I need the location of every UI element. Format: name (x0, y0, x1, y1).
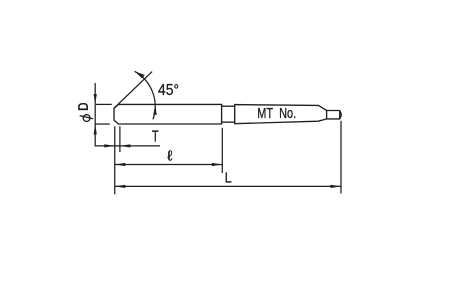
arrowhead L left (left-pointing) (115, 185, 126, 188)
arrowhead arc at body edge (153, 104, 156, 115)
svg-text:T: T (152, 129, 159, 146)
phiD top extension line (96, 103, 112, 105)
svg-text:45°: 45° (158, 82, 179, 99)
arrowhead phiD bottom (up) (94, 124, 97, 134)
svg-text:ℓ: ℓ (167, 148, 173, 164)
phiD dimension line with corner to T dimension line (95, 83, 160, 146)
neck bottom edge (222, 121, 235, 123)
tang shoulder line (326, 111, 328, 119)
arrowhead T left (right-pointing) (104, 144, 115, 147)
l dimension line (115, 164, 223, 166)
L right extension line (340, 121, 342, 194)
L dimension line (115, 185, 341, 187)
diameter symbol of phiD (80, 115, 93, 122)
neck top edge (222, 105, 235, 107)
angular dimension arc (135, 71, 156, 119)
l right extension line (221, 128, 223, 173)
arrowhead l right (right-pointing) (212, 163, 223, 166)
T right extension line (119, 126, 121, 152)
svg-text:MT No.: MT No. (257, 106, 296, 122)
tool body outline (114, 104, 222, 124)
svg-text:L: L (225, 170, 232, 187)
tang rounded end cap (340, 111, 342, 119)
label D of phiD (rotated, drawn) (78, 104, 88, 110)
phiD bottom extension line (95, 123, 110, 125)
arrowhead T right (left-pointing) (120, 144, 130, 147)
arrowhead L right (right-pointing) (331, 185, 342, 188)
45-degree chamfer construction line (114, 72, 152, 109)
arrowhead phiD top (down) (94, 94, 97, 104)
arrowhead arc top end (135, 71, 145, 78)
shared left extension line (T, l, L) (114, 126, 116, 194)
taper shank outline (235, 105, 340, 124)
arrowhead l left (left-pointing) (115, 163, 126, 166)
